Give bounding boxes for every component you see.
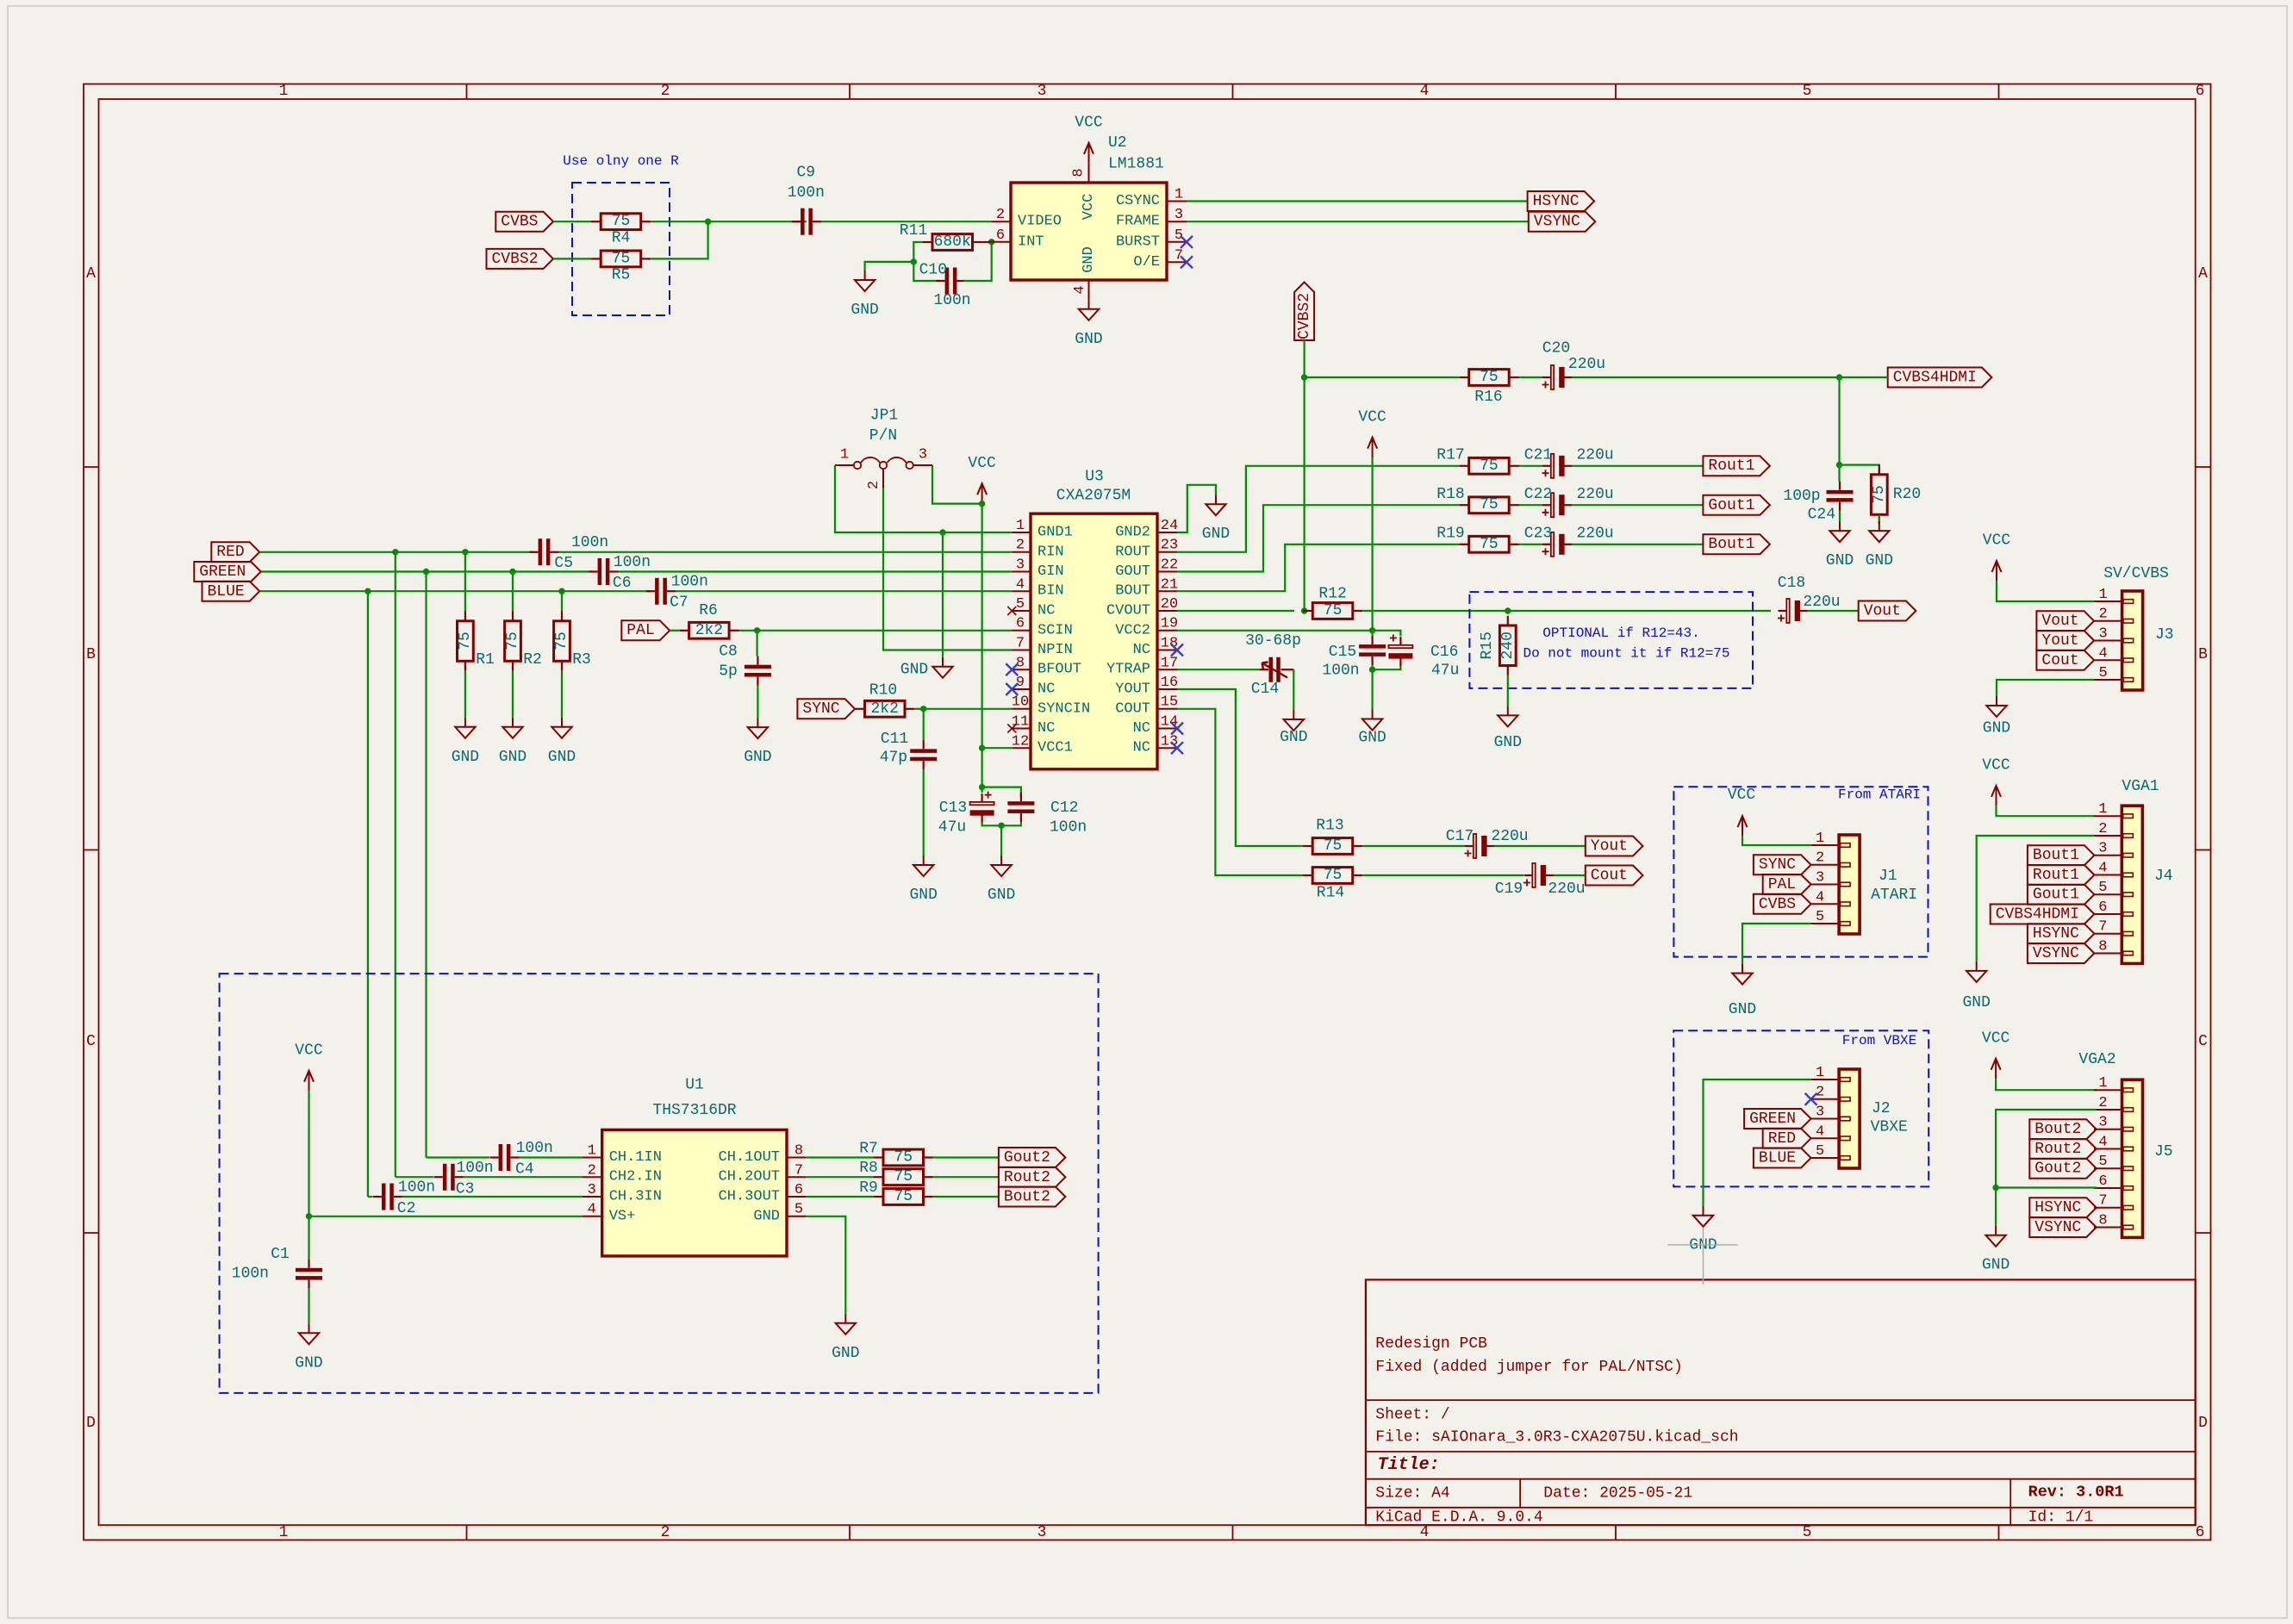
wire R2 to ground: [512, 671, 514, 718]
wire R3 to ground: [561, 671, 563, 718]
U3 pin 12 VCC1: [1012, 747, 1031, 749]
svg-text:Bout1: Bout1: [2033, 847, 2079, 864]
wire J2 pin1 to ground: [1704, 1080, 1811, 1206]
svg-text:C3: C3: [456, 1181, 475, 1198]
dashed box U1 buffer block: [220, 974, 1099, 1393]
svg-text:R3: R3: [572, 651, 591, 669]
junction C13/C12 bottom: [998, 823, 1004, 829]
wire junction down to C8: [756, 631, 757, 656]
U3 pin 15 COUT: [1157, 708, 1177, 710]
svg-text:2: 2: [1016, 538, 1025, 554]
global label Bout1 to J4 pin3: [2028, 845, 2095, 865]
wire J3 pin5 to ground: [1997, 680, 2094, 696]
svg-text:BLUE: BLUE: [1759, 1150, 1796, 1167]
resistor R19: [1459, 544, 1468, 545]
U1 pin 5 GND: [787, 1216, 807, 1217]
svg-text:1: 1: [1175, 187, 1183, 203]
svg-text:GND: GND: [1081, 246, 1097, 273]
svg-text:220u: 220u: [1577, 526, 1614, 543]
resistor R6 2k2: [679, 630, 689, 632]
junction GND1 node: [939, 529, 945, 535]
wire VCC1: [982, 747, 1013, 749]
wire BLUE riser to C2: [368, 1196, 373, 1198]
U1 pin 4 VS+: [583, 1216, 602, 1217]
svg-text:24: 24: [1161, 518, 1178, 534]
wire C19 to Cout label: [1554, 874, 1586, 876]
svg-text:C10: C10: [919, 262, 947, 279]
global label VSYNC to J5 pin8: [2029, 1217, 2097, 1237]
global label PAL to J1 pin3: [1763, 874, 1811, 894]
capacitor C21 220u polarized: [1542, 465, 1551, 467]
capacitor C20 220u polarized: [1542, 376, 1551, 378]
svg-text:2: 2: [1816, 1085, 1824, 1101]
svg-text:7: 7: [2098, 919, 2107, 936]
wire C4 to CH.1IN: [520, 1156, 583, 1158]
svg-text:Cout: Cout: [1591, 868, 1628, 885]
svg-text:VCC1: VCC1: [1037, 740, 1073, 756]
svg-text:Do not mount it if R12=75: Do not mount it if R12=75: [1523, 646, 1729, 662]
ground below R15: [1507, 706, 1509, 715]
svg-text:75: 75: [1480, 496, 1499, 513]
svg-text:1: 1: [588, 1143, 596, 1160]
svg-text:5: 5: [1816, 1143, 1824, 1160]
wire R17 to C21: [1519, 465, 1543, 467]
power VCC above U2: [1088, 145, 1090, 163]
svg-text:4: 4: [1016, 576, 1025, 593]
U2 pin 6 INT: [991, 241, 1011, 243]
svg-text:47p: 47p: [880, 750, 907, 767]
wire R13 to C17: [1362, 845, 1465, 847]
svg-text:2: 2: [2098, 607, 2107, 623]
svg-text:100n: 100n: [1322, 663, 1359, 680]
junction RED riser: [392, 549, 398, 555]
svg-text:GND: GND: [1866, 552, 1893, 569]
ground below R20: [1879, 521, 1880, 531]
svg-text:75: 75: [1324, 602, 1343, 619]
svg-text:Bout1: Bout1: [1708, 536, 1754, 553]
svg-text:5: 5: [794, 1202, 803, 1218]
wire COUT to R14: [1177, 709, 1303, 875]
svg-text:R1: R1: [476, 651, 495, 669]
svg-text:C4: C4: [515, 1161, 534, 1179]
wire junction to R20 top: [1840, 465, 1879, 475]
wire R11 left leg down: [913, 242, 922, 262]
svg-text:5: 5: [2098, 1154, 2107, 1170]
svg-text:ROUT: ROUT: [1115, 544, 1150, 560]
global label Cout to J3 pin4: [2036, 650, 2094, 670]
wire junction to U3 pin1: [943, 532, 1012, 533]
wire C3 to CH2.IN: [464, 1176, 583, 1178]
wire R4 to junction: [651, 221, 807, 222]
global label HSYNC to J4 pin7: [2028, 924, 2095, 943]
global label GREEN: [194, 562, 260, 582]
svg-text:HSYNC: HSYNC: [1533, 193, 1580, 210]
svg-text:GND: GND: [548, 749, 576, 766]
svg-text:SV/CVBS: SV/CVBS: [2103, 565, 2169, 582]
wire J4 pin2 to ground: [1977, 836, 2095, 961]
wire YOUT to R13: [1177, 689, 1303, 846]
svg-text:C13: C13: [939, 800, 967, 817]
wire YTRAP to C14: [1177, 669, 1260, 670]
svg-text:D: D: [2198, 1415, 2208, 1432]
svg-text:COUT: COUT: [1115, 700, 1150, 717]
cursor crosshair artifact: [1667, 1228, 1737, 1285]
capacitor C9: [792, 221, 801, 222]
svg-text:GND: GND: [744, 749, 771, 766]
capacitor C18 220u polarized: [1779, 610, 1787, 612]
capacitor C10: [937, 280, 945, 282]
svg-text:23: 23: [1161, 538, 1178, 554]
svg-text:100n: 100n: [1050, 819, 1087, 837]
svg-text:1: 1: [840, 447, 849, 464]
svg-text:CH2.IN: CH2.IN: [609, 1169, 662, 1185]
U3 pin 6 SCIN: [1012, 630, 1031, 632]
svg-text:75: 75: [1480, 536, 1499, 553]
svg-text:R18: R18: [1436, 486, 1464, 503]
ground below C12/C13: [1000, 856, 1002, 865]
wire R11 right to pin6 junction: [982, 241, 992, 243]
U1 pin 3 CH.3IN: [583, 1196, 602, 1198]
junction C13/C12 top: [979, 784, 985, 790]
wire GOUT to R18: [1177, 505, 1459, 571]
wire VCC2 to junction: [1177, 630, 1373, 632]
resistor R5: [591, 258, 601, 259]
resistor R2: [512, 611, 514, 620]
wire CVBS2 to R5: [553, 258, 591, 259]
wire R20 to ground: [1879, 515, 1880, 522]
svg-text:R12: R12: [1318, 586, 1346, 603]
global label VSYNC to J4 pin8: [2028, 943, 2095, 963]
svg-text:GND: GND: [295, 1354, 322, 1372]
svg-text:6: 6: [2196, 83, 2205, 100]
svg-text:C16: C16: [1430, 644, 1458, 661]
svg-text:BURST: BURST: [1116, 233, 1160, 250]
resistor R15 240: [1507, 616, 1509, 625]
svg-text:GND: GND: [1826, 552, 1854, 569]
VCC rail down to U3 VCC1: [981, 504, 982, 749]
svg-text:3: 3: [1037, 1524, 1047, 1541]
wire C23 to Bout1 label: [1572, 544, 1703, 545]
junction GREEN riser: [423, 569, 429, 575]
wire junction to SCIN: [757, 630, 1013, 632]
svg-text:YOUT: YOUT: [1115, 681, 1150, 698]
capacitor C14 30-68p trimmer: [1260, 669, 1268, 670]
svg-text:GIN: GIN: [1037, 563, 1064, 580]
connector J4 VGA1: [2122, 806, 2142, 963]
wire U1 out to R7: [807, 1156, 874, 1158]
connector J2 VBXE: [1839, 1069, 1860, 1168]
svg-text:75: 75: [1871, 485, 1888, 504]
svg-text:THS7316DR: THS7316DR: [652, 1102, 736, 1119]
global label CVBS2 (vertical): [1294, 283, 1314, 341]
global label Cout: [1586, 866, 1643, 886]
ground below C8: [757, 718, 758, 727]
wire RED row: [259, 551, 533, 553]
wire C22 to Gout1 label: [1572, 504, 1703, 506]
svg-text:A: A: [86, 265, 96, 283]
wire ROUT to R17: [1177, 466, 1459, 552]
wire RED riser to C3: [396, 1176, 434, 1178]
wire U1 GND pin to ground: [807, 1216, 846, 1314]
U3 pin 1 GND1: [1012, 532, 1031, 533]
svg-text:7: 7: [1175, 247, 1183, 264]
U3 pin 23 ROUT: [1157, 551, 1177, 553]
svg-text:5: 5: [1016, 596, 1025, 613]
svg-text:1: 1: [1816, 831, 1824, 847]
svg-text:2k2: 2k2: [695, 622, 723, 639]
ground for GND2: [1215, 495, 1217, 504]
svg-text:GND: GND: [753, 1208, 780, 1224]
svg-text:Gout2: Gout2: [2034, 1160, 2081, 1178]
resistor R20: [1879, 464, 1880, 474]
svg-text:GND: GND: [988, 887, 1015, 904]
svg-text:5: 5: [1803, 83, 1812, 100]
svg-text:1: 1: [279, 1524, 289, 1541]
global label BLUE to J2 pin5: [1754, 1148, 1811, 1168]
ground below U1: [844, 1314, 846, 1323]
svg-text:3: 3: [1816, 870, 1824, 887]
svg-text:2: 2: [2098, 1095, 2107, 1111]
svg-text:BLUE: BLUE: [207, 583, 244, 600]
svg-text:CVBS2: CVBS2: [491, 251, 538, 268]
svg-text:B: B: [2198, 646, 2208, 663]
svg-text:100n: 100n: [614, 554, 651, 571]
resistor R12: [1303, 610, 1312, 612]
global label HSYNC to J5 pin7: [2029, 1198, 2097, 1217]
U3 pin 11 NC: [1012, 728, 1031, 730]
svg-text:VIDEO: VIDEO: [1018, 214, 1062, 230]
junction C15/C16 bottom: [1369, 667, 1375, 673]
wire VCC to J5 pin1: [1996, 1079, 2097, 1090]
JP1 pin2 wire to NPIN: [882, 469, 884, 488]
svg-text:Redesign PCB: Redesign PCB: [1375, 1335, 1487, 1353]
svg-text:2: 2: [996, 207, 1005, 223]
svg-text:100n: 100n: [788, 184, 825, 202]
resistor R17: [1459, 465, 1468, 467]
svg-text:3: 3: [2098, 1115, 2107, 1131]
wire junction down to R12 row: [1303, 377, 1305, 611]
svg-text:File: sAIOnara_3.0R3-CXA2075U.: File: sAIOnara_3.0R3-CXA2075U.kicad_sch: [1375, 1429, 1738, 1447]
svg-text:Rev: 3.0R1: Rev: 3.0R1: [2028, 1484, 2124, 1502]
svg-text:VSYNC: VSYNC: [2033, 945, 2079, 962]
wire VS+ to U1 pin4: [309, 1216, 583, 1217]
global label SYNC to J1 pin2: [1754, 855, 1811, 874]
wire C24 to ground: [1839, 511, 1841, 522]
capacitor C23 220u polarized: [1542, 544, 1551, 545]
U2 pin 2 VIDEO: [991, 221, 1011, 222]
power VCC for U1: [308, 1073, 310, 1091]
svg-text:1: 1: [2098, 801, 2107, 818]
svg-text:CXA2075M: CXA2075M: [1056, 488, 1131, 505]
svg-text:6: 6: [2098, 899, 2107, 916]
ground below C1: [308, 1323, 310, 1333]
connector J1 ATARI: [1839, 835, 1860, 934]
U2 pin 3 FRAME: [1167, 221, 1187, 222]
svg-text:GND: GND: [851, 302, 878, 319]
wire junction down to ground: [1000, 825, 1002, 856]
capacitor C24 100p: [1838, 465, 1840, 482]
svg-text:J2: J2: [1872, 1100, 1891, 1117]
wire C10 to pin6 junction: [963, 242, 992, 281]
title block: [1366, 1279, 2196, 1525]
svg-text:U2: U2: [1108, 134, 1127, 152]
junction CVBS4HDMI node: [1836, 374, 1842, 380]
svg-text:75: 75: [894, 1149, 913, 1167]
capacitor C6 100n: [589, 570, 598, 572]
U3 pin 8 BFOUT: [1012, 669, 1031, 670]
RGB risers down to U1 block: [395, 552, 396, 1177]
svg-text:30-68p: 30-68p: [1245, 632, 1301, 650]
svg-text:R5: R5: [612, 267, 631, 284]
U3 pin 16 YOUT: [1157, 688, 1177, 690]
svg-text:VCC2: VCC2: [1115, 622, 1150, 638]
svg-text:GREEN: GREEN: [1749, 1111, 1796, 1128]
capacitor C16 47u polarized: [1399, 637, 1401, 645]
svg-text:SYNCIN: SYNCIN: [1037, 700, 1090, 717]
svg-text:6: 6: [794, 1182, 803, 1198]
svg-text:4: 4: [588, 1202, 596, 1218]
svg-text:BFOUT: BFOUT: [1037, 662, 1081, 678]
svg-text:VCC: VCC: [1075, 115, 1103, 132]
svg-text:Rout2: Rout2: [2034, 1141, 2081, 1158]
wire GND2 jog to ground: [1177, 485, 1216, 532]
svg-text:3: 3: [1037, 83, 1047, 100]
svg-text:GND: GND: [1494, 734, 1522, 751]
wire junction to C16 bottom: [1373, 665, 1401, 669]
svg-text:YTRAP: YTRAP: [1106, 662, 1150, 678]
global label CVBS4HDMI to J4 pin6: [1991, 905, 2095, 924]
svg-text:R6: R6: [699, 602, 718, 619]
U2 pin 1 CSYNC: [1167, 201, 1187, 202]
VCC wire down to VS+ junction: [308, 1091, 309, 1216]
ground below C14: [1293, 710, 1294, 719]
svg-text:75: 75: [894, 1168, 913, 1185]
svg-text:2: 2: [588, 1162, 596, 1179]
power VCC for J4: [1996, 787, 1997, 806]
global label CVBS2 (left): [487, 249, 554, 269]
svg-text:5: 5: [2098, 880, 2107, 896]
JP1 pin3 wire to VCC: [913, 464, 932, 466]
svg-text:CVBS2: CVBS2: [1296, 293, 1313, 339]
svg-text:5: 5: [1816, 909, 1824, 925]
global label Vout to J3 pin2: [2036, 611, 2094, 631]
U3 pin 18 NC: [1157, 650, 1177, 651]
svg-text:FRAME: FRAME: [1116, 214, 1160, 230]
svg-text:VCC: VCC: [1982, 1030, 2010, 1047]
wire C13/C12 bottoms to junction: [982, 822, 1021, 825]
svg-text:HSYNC: HSYNC: [2033, 925, 2079, 943]
svg-text:GND1: GND1: [1037, 525, 1073, 541]
svg-text:P/N: P/N: [869, 427, 897, 445]
svg-text:C17: C17: [1446, 828, 1474, 845]
svg-text:3: 3: [588, 1182, 596, 1198]
capacitor C19 220u polarized: [1524, 874, 1533, 876]
wire junction down to C24/R20: [1838, 377, 1840, 465]
svg-text:Gout2: Gout2: [1004, 1149, 1050, 1167]
svg-text:100n: 100n: [232, 1266, 269, 1283]
svg-text:CH.1OUT: CH.1OUT: [719, 1149, 780, 1166]
wire junction to GND: [865, 262, 914, 271]
svg-text:Rout1: Rout1: [2033, 867, 2079, 884]
wire R15 to ground: [1507, 675, 1509, 706]
svg-text:VS+: VS+: [609, 1208, 636, 1224]
svg-text:OPTIONAL if R12=43.: OPTIONAL if R12=43.: [1542, 625, 1699, 641]
svg-text:PAL: PAL: [626, 622, 654, 639]
svg-text:C21: C21: [1524, 447, 1552, 464]
capacitor C7 100n: [646, 590, 655, 592]
U3 pin 21 BOUT: [1157, 590, 1177, 592]
junction VCC2 node: [1369, 627, 1375, 633]
svg-text:CH.2OUT: CH.2OUT: [719, 1169, 780, 1185]
svg-text:75: 75: [894, 1188, 913, 1205]
svg-text:Gout1: Gout1: [2033, 887, 2079, 904]
svg-text:C8: C8: [719, 644, 738, 661]
svg-text:R4: R4: [612, 230, 631, 247]
svg-text:7: 7: [1016, 636, 1025, 652]
global label Rout1 to J4 pin4: [2028, 865, 2095, 885]
svg-text:C18: C18: [1778, 575, 1805, 592]
svg-text:CH.3IN: CH.3IN: [609, 1189, 662, 1205]
wire FRAME to VSYNC label: [1187, 221, 1529, 222]
svg-text:GND: GND: [1280, 729, 1307, 746]
JP1 pin1 wire to GND1 net: [835, 464, 854, 466]
svg-text:JP1: JP1: [870, 408, 898, 425]
power VCC for J5: [1995, 1061, 1997, 1079]
svg-text:6: 6: [996, 227, 1005, 244]
svg-text:75: 75: [553, 632, 570, 650]
wire GREEN down to R2: [512, 572, 514, 612]
svg-text:R2: R2: [523, 651, 542, 669]
wire R7 to Gout2: [933, 1156, 999, 1158]
svg-text:7: 7: [794, 1162, 803, 1179]
svg-text:NC: NC: [1037, 603, 1055, 619]
capacitor C11 47p: [923, 740, 925, 749]
svg-text:NC: NC: [1037, 681, 1055, 698]
svg-text:C6: C6: [613, 575, 632, 592]
global label Gout1 to J4 pin5: [2028, 885, 2095, 905]
svg-text:R13: R13: [1316, 818, 1343, 835]
svg-text:75: 75: [612, 250, 631, 267]
note From VBXE: [1841, 1034, 1918, 1048]
svg-text:5: 5: [1175, 227, 1183, 244]
svg-text:47u: 47u: [938, 819, 966, 837]
wire C15 bottom to junction: [1371, 665, 1373, 669]
svg-text:Vout: Vout: [1864, 603, 1901, 620]
svg-text:CVBS: CVBS: [501, 214, 538, 231]
svg-text:SYNC: SYNC: [802, 700, 839, 718]
global label RED: [211, 542, 259, 562]
ground below C11: [923, 856, 925, 865]
svg-text:GND: GND: [1983, 720, 2010, 737]
wire R5 up to junction: [651, 221, 707, 258]
svg-text:12: 12: [1012, 733, 1029, 750]
U3 pin 2 RIN: [1012, 551, 1031, 553]
svg-text:10: 10: [1012, 694, 1029, 711]
svg-text:J1: J1: [1879, 868, 1897, 885]
ground below J2: [1703, 1206, 1704, 1216]
U3 pin 17 YTRAP: [1157, 669, 1177, 670]
svg-text:Vout: Vout: [2041, 613, 2078, 630]
svg-text:GOUT: GOUT: [1115, 563, 1150, 580]
wire CVBS2 label down to junction: [1303, 340, 1305, 377]
svg-text:100n: 100n: [398, 1179, 435, 1197]
capacitor C3 100n: [434, 1176, 443, 1178]
junction R15 node: [1505, 607, 1511, 613]
svg-text:VCC: VCC: [1358, 408, 1386, 426]
global label Gout2 to J5 pin5: [2029, 1159, 2097, 1179]
dashed box From VBXE: [1673, 1030, 1928, 1186]
svg-text:C7: C7: [670, 594, 689, 612]
